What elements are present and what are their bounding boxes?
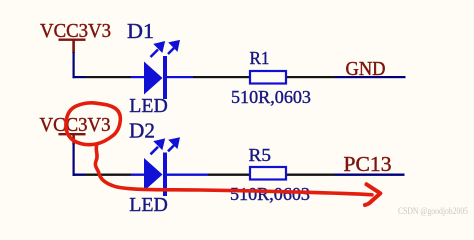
svg-text:510R,0603: 510R,0603 — [231, 87, 311, 107]
LED D1 triangle — [144, 62, 163, 95]
svg-text:VCC3V3: VCC3V3 — [40, 114, 111, 136]
wire black segment D1 to R1 — [193, 76, 249, 78]
wire black segment to D1 anode — [85, 76, 131, 78]
pin blue segment at D2 anode — [131, 174, 145, 176]
LED D2 emission arrow 1 — [151, 139, 179, 154]
annotation red arrowhead — [365, 184, 380, 205]
wire black segment D2 to R5 — [208, 174, 249, 176]
wire black segment R5 to PC13 net — [287, 174, 335, 176]
pin blue segment at D1 cathode — [167, 76, 193, 78]
svg-text:PC13: PC13 — [344, 152, 392, 176]
svg-text:R1: R1 — [250, 48, 270, 68]
annotation red swoosh curve — [95, 144, 372, 195]
svg-text:LED: LED — [129, 194, 168, 216]
svg-text:GND: GND — [346, 58, 386, 80]
wire black segment to D2 anode — [85, 174, 131, 176]
svg-text:D2: D2 — [129, 119, 155, 143]
LED D2 cathode bar — [163, 153, 167, 197]
LED D2 emission arrow 2 — [168, 145, 174, 151]
annotation red loop around VCC3V3 — [66, 103, 120, 145]
wire corner horizontal (top) — [73, 76, 86, 78]
svg-text:D1: D1 — [127, 19, 154, 43]
LED D2 triangle — [144, 158, 163, 191]
power port VCC3V3 (top) stub — [72, 41, 75, 54]
wire navy segment under GND — [335, 76, 406, 78]
wire corner horizontal (bottom) — [73, 174, 86, 176]
pin blue segment at D2 cathode — [167, 174, 208, 176]
wire navy segment under PC13 — [335, 174, 405, 176]
svg-text:LED: LED — [129, 95, 168, 117]
LED D1 cathode bar — [163, 56, 167, 99]
resistor R1 body — [250, 71, 286, 84]
wire black segment R1 to GND net — [287, 76, 335, 78]
LED D1 emission arrow 1 — [151, 42, 179, 57]
power port VCC3V3 (top) bar — [59, 39, 86, 41]
LED D1 emission arrow 2 — [168, 48, 174, 54]
pin blue segment at D1 anode — [131, 76, 145, 78]
wire vertical from VCC3V3 to node (top) — [73, 52, 75, 78]
wire vertical from VCC3V3 to node (bottom) — [73, 144, 75, 176]
resistor R5 body — [250, 167, 286, 180]
svg-text:510R,0603: 510R,0603 — [230, 184, 310, 204]
power port VCC3V3 (bottom) bar — [59, 133, 86, 135]
power port VCC3V3 (bottom) stub — [72, 135, 75, 145]
svg-text:CSDN @goodjob2005: CSDN @goodjob2005 — [398, 206, 468, 216]
svg-text:R5: R5 — [249, 145, 272, 165]
